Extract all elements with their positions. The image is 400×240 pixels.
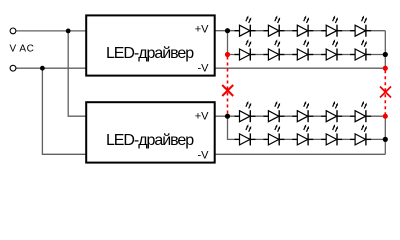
svg-text:LED-драйвер: LED-драйвер	[106, 45, 194, 62]
svg-text:+V: +V	[195, 24, 209, 36]
svg-text:-V: -V	[198, 63, 210, 75]
svg-text:V AC: V AC	[10, 44, 35, 55]
svg-text:LED-драйвер: LED-драйвер	[106, 132, 194, 149]
svg-text:-V: -V	[198, 150, 210, 162]
svg-text:+V: +V	[195, 111, 209, 123]
